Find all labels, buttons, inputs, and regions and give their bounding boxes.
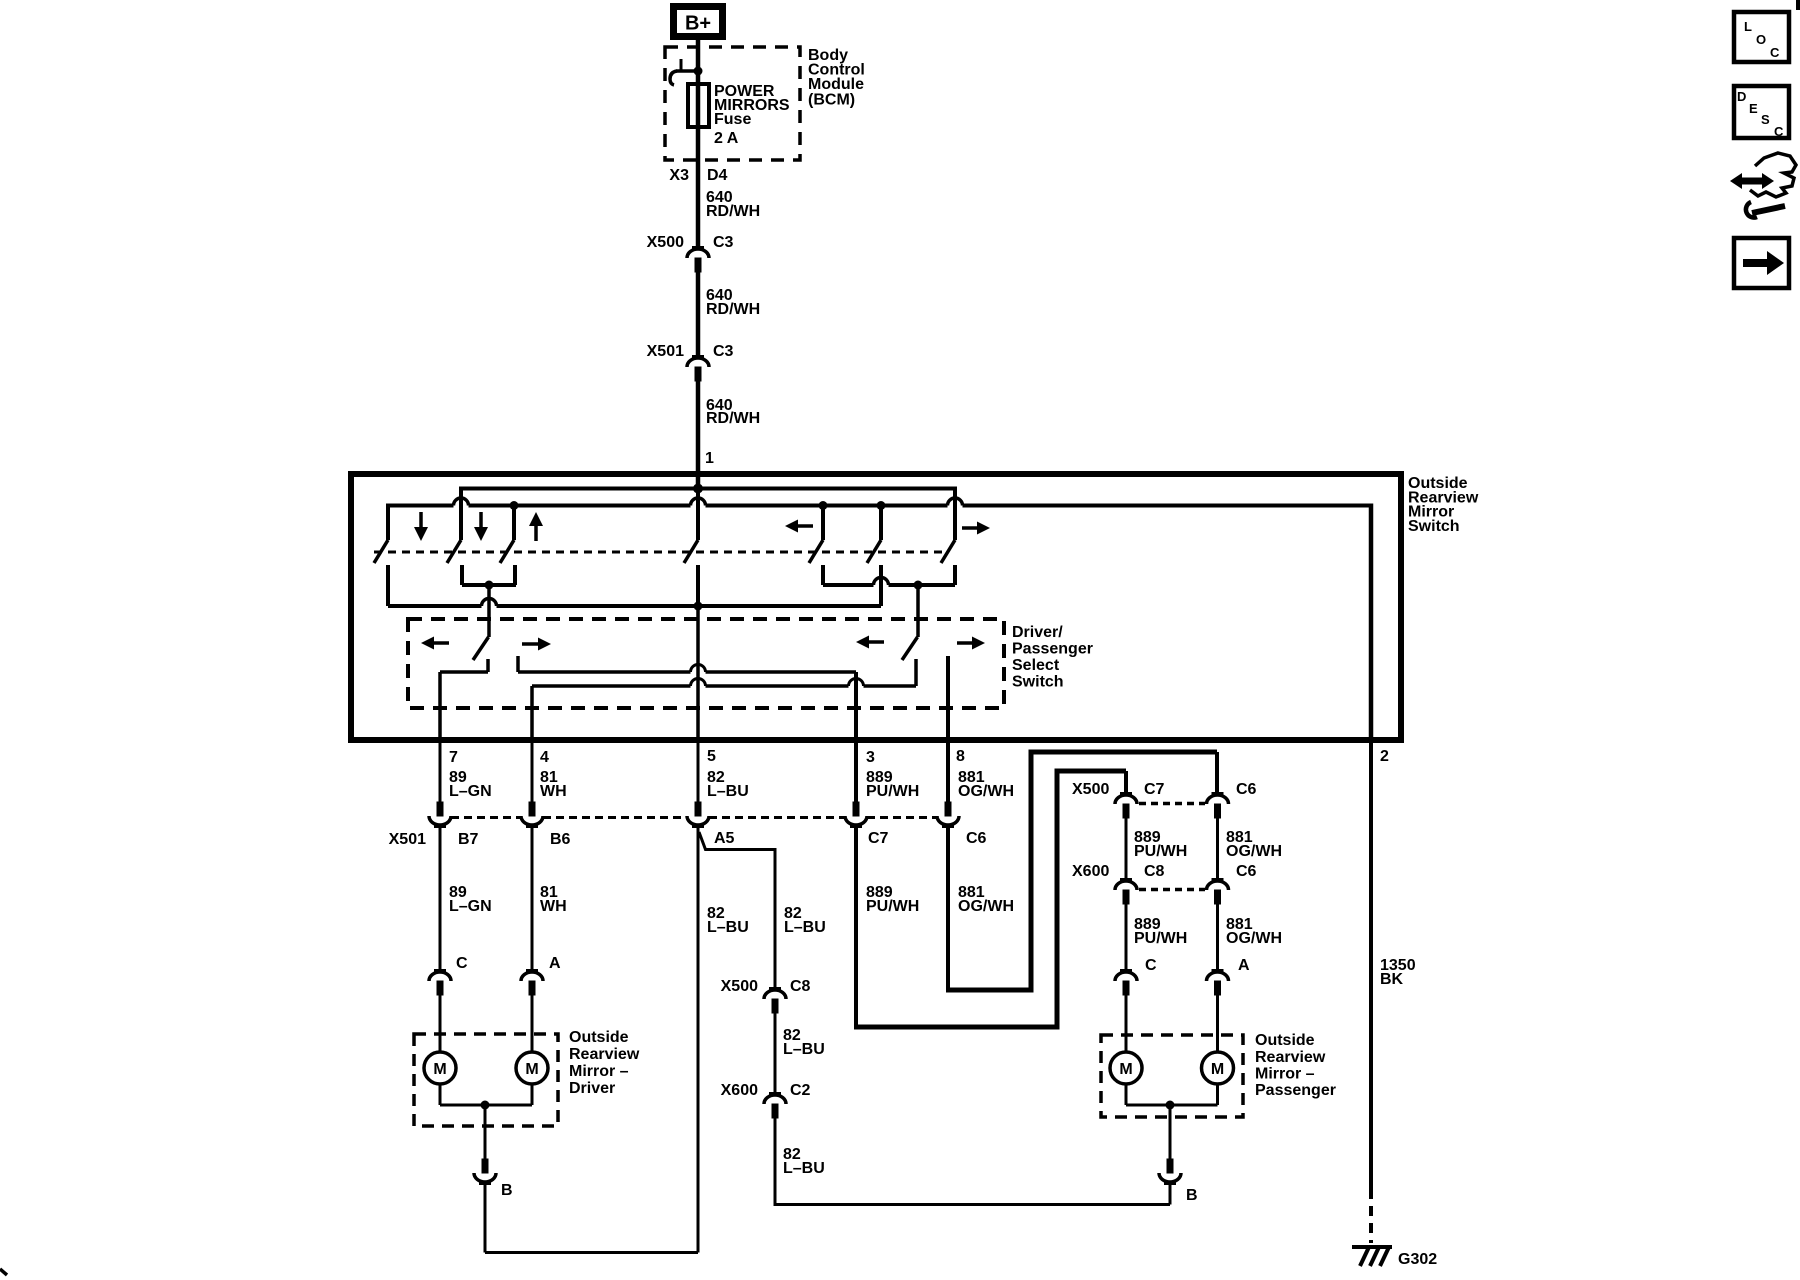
- svg-text:X500: X500: [647, 234, 684, 251]
- svg-text:Rearview: Rearview: [1255, 1049, 1326, 1066]
- svg-text:L: L: [1744, 19, 1752, 34]
- svg-text:C3: C3: [713, 234, 734, 251]
- svg-text:7: 7: [449, 749, 458, 766]
- svg-text:RD/WH: RD/WH: [706, 203, 760, 220]
- svg-text:1: 1: [705, 450, 714, 467]
- svg-text:Select: Select: [1012, 657, 1060, 674]
- svg-text:S: S: [1761, 112, 1770, 127]
- svg-text:Module: Module: [808, 76, 864, 93]
- svg-text:D: D: [1737, 89, 1746, 104]
- svg-text:D4: D4: [707, 167, 728, 184]
- svg-text:L–BU: L–BU: [783, 1041, 825, 1058]
- svg-text:C2: C2: [790, 1082, 811, 1099]
- svg-text:PU/WH: PU/WH: [1134, 930, 1187, 947]
- svg-text:RD/WH: RD/WH: [706, 410, 760, 427]
- svg-text:OG/WH: OG/WH: [1226, 930, 1282, 947]
- svg-text:L–GN: L–GN: [449, 898, 492, 915]
- svg-text:B: B: [501, 1182, 513, 1199]
- svg-text:OG/WH: OG/WH: [958, 898, 1014, 915]
- svg-text:8: 8: [956, 748, 965, 765]
- svg-text:C: C: [1145, 957, 1157, 974]
- svg-text:C6: C6: [966, 830, 987, 847]
- svg-text:C6: C6: [1236, 863, 1257, 880]
- svg-text:B+: B+: [685, 13, 711, 35]
- svg-text:G302: G302: [1398, 1251, 1437, 1268]
- svg-text:M: M: [525, 1061, 538, 1078]
- svg-text:OG/WH: OG/WH: [1226, 843, 1282, 860]
- svg-text:3: 3: [866, 749, 875, 766]
- svg-text:2: 2: [1380, 748, 1389, 765]
- svg-text:5: 5: [707, 748, 716, 765]
- svg-text:C: C: [1770, 45, 1780, 60]
- svg-text:X501: X501: [389, 831, 426, 848]
- svg-text:A5: A5: [714, 830, 735, 847]
- svg-text:L–GN: L–GN: [449, 783, 492, 800]
- svg-text:A: A: [549, 955, 561, 972]
- svg-text:A: A: [1238, 957, 1250, 974]
- svg-text:Outside: Outside: [1255, 1032, 1315, 1049]
- svg-text:BK: BK: [1380, 971, 1404, 988]
- svg-text:B: B: [1186, 1187, 1198, 1204]
- svg-text:Rearview: Rearview: [569, 1046, 640, 1063]
- svg-text:C8: C8: [790, 978, 811, 995]
- svg-text:Passenger: Passenger: [1012, 641, 1093, 658]
- svg-text:PU/WH: PU/WH: [866, 783, 919, 800]
- svg-text:C: C: [1774, 124, 1784, 139]
- svg-text:WH: WH: [540, 783, 567, 800]
- svg-text:L–BU: L–BU: [783, 1160, 825, 1177]
- svg-text:X500: X500: [1072, 781, 1109, 798]
- svg-text:OG/WH: OG/WH: [958, 783, 1014, 800]
- svg-text:B7: B7: [458, 831, 479, 848]
- svg-text:C7: C7: [868, 830, 889, 847]
- svg-text:2 A: 2 A: [714, 130, 739, 147]
- svg-text:RD/WH: RD/WH: [706, 301, 760, 318]
- svg-text:C8: C8: [1144, 863, 1165, 880]
- svg-text:Passenger: Passenger: [1255, 1082, 1336, 1099]
- svg-text:O: O: [1756, 32, 1766, 47]
- svg-text:Mirror –: Mirror –: [1255, 1066, 1315, 1083]
- svg-text:L–BU: L–BU: [784, 919, 826, 936]
- svg-text:E: E: [1749, 101, 1758, 116]
- svg-text:M: M: [1211, 1061, 1224, 1078]
- svg-text:C3: C3: [713, 343, 734, 360]
- svg-text:X501: X501: [647, 343, 684, 360]
- svg-text:WH: WH: [540, 898, 567, 915]
- svg-text:X3: X3: [669, 167, 689, 184]
- svg-text:M: M: [433, 1061, 446, 1078]
- svg-text:(BCM): (BCM): [808, 92, 855, 109]
- svg-text:L–BU: L–BU: [707, 783, 749, 800]
- svg-text:Outside: Outside: [569, 1029, 629, 1046]
- svg-text:Fuse: Fuse: [714, 111, 751, 128]
- svg-text:C: C: [456, 955, 468, 972]
- svg-text:PU/WH: PU/WH: [866, 898, 919, 915]
- svg-text:X600: X600: [1072, 863, 1109, 880]
- svg-text:PU/WH: PU/WH: [1134, 843, 1187, 860]
- svg-text:C6: C6: [1236, 781, 1257, 798]
- svg-text:B6: B6: [550, 831, 571, 848]
- svg-text:X500: X500: [721, 978, 758, 995]
- svg-text:Switch: Switch: [1408, 518, 1460, 535]
- svg-text:Driver/: Driver/: [1012, 624, 1063, 641]
- svg-text:Switch: Switch: [1012, 674, 1064, 691]
- svg-text:C7: C7: [1144, 781, 1165, 798]
- svg-text:M: M: [1119, 1061, 1132, 1078]
- svg-text:4: 4: [540, 749, 549, 766]
- svg-text:X600: X600: [721, 1082, 758, 1099]
- svg-text:Driver: Driver: [569, 1080, 615, 1097]
- svg-text:L–BU: L–BU: [707, 919, 749, 936]
- svg-text:Mirror –: Mirror –: [569, 1063, 629, 1080]
